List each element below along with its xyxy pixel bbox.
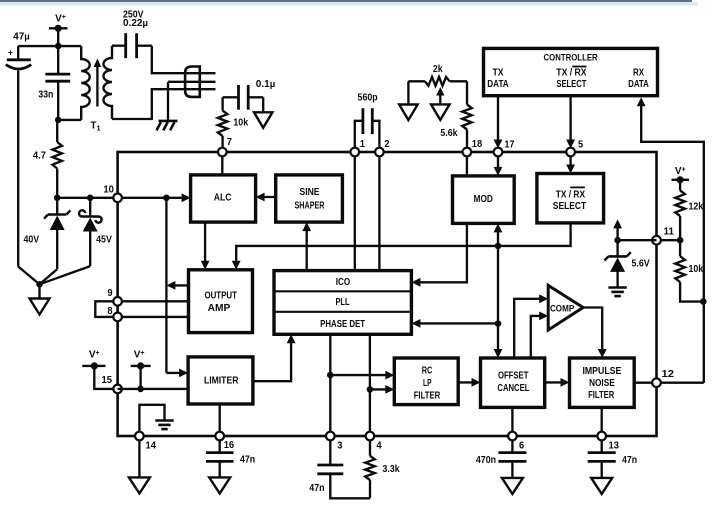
svg-text:1: 1 [360,139,366,150]
ground (0.1u) [254,112,273,128]
zener D3 5.6V [604,240,649,287]
wire modnet to OFFSET CANCEL [494,324,503,358]
node 12k/10k junction [677,237,684,244]
svg-text:AMP: AMP [208,303,231,314]
svg-text:V+: V+ [134,350,145,361]
wire SINE to ALC [256,193,276,202]
node pin10 rail dot1 [54,195,61,202]
svg-text:11: 11 [664,226,675,237]
pin 13 [597,432,619,452]
svg-text:33n: 33n [38,90,53,101]
block IMPULSE NOISE FILTER [570,358,635,407]
pin 3 [326,432,343,452]
svg-text:CANCEL: CANCEL [497,383,529,394]
block LIMITER [188,357,253,404]
ground (earth near pin14) [155,421,173,430]
svg-text:NOISE: NOISE [589,378,615,389]
block SINE SHAPER [276,175,343,222]
svg-text:+: + [8,48,13,58]
wire PHASE DET to pin3 [329,334,331,436]
capacitor C5 560p label [358,92,378,103]
pin 12 [652,369,674,387]
capacitor C7 47n [309,440,370,498]
svg-text:18: 18 [472,139,483,150]
controller RX DATA label [628,68,649,90]
AC plug middle prong wire [168,81,216,83]
svg-text:TX / RX: TX / RX [556,190,586,201]
capacitor C3 250V 0.22u labels [123,9,148,29]
capacitor C1 47u [6,46,31,266]
pin 5 [566,139,583,156]
wire node B to T1 [58,119,81,121]
wire limiter branch into LIMITER [166,369,188,378]
block OFFSET CANCEL [481,358,545,407]
IC U1 outline [118,152,657,436]
wire ALC to OUTPUT AMP [201,222,210,270]
svg-text:12k: 12k [689,201,704,212]
svg-text:5: 5 [578,139,584,150]
zener D1 40V [23,198,70,284]
wire LIMITER to PHASE DET [253,334,296,381]
svg-text:47n: 47n [240,454,255,465]
controller TX/RX SELECT label [556,67,587,90]
svg-text:3.3k: 3.3k [383,464,400,475]
svg-text:TX: TX [492,68,504,79]
transformer T1 arrow [94,59,102,107]
wire OUTPUT AMP left arrow [166,281,188,290]
capacitor C9 47n [588,440,638,478]
op-amp COMP [548,285,583,330]
node limiter-branch junction [163,195,170,202]
svg-text:FILTER: FILTER [414,391,441,402]
wire pin11 to divider [657,239,681,241]
svg-text:560p: 560p [358,92,378,103]
pot wiper arrow [436,87,444,104]
wire limiter branch vertical [165,198,167,373]
svg-text:LIMITER: LIMITER [204,376,239,387]
pin 11 [652,226,674,244]
wire RX DATA from right rail [637,97,704,383]
wire COMP out to IMPULSE [583,308,607,359]
capacitor C6 47n [206,440,255,477]
svg-text:10k: 10k [233,117,248,128]
wire T1 secondary bottom [112,89,216,119]
AC plug ground wire [167,82,169,121]
block OUTPUT AMP [189,270,253,333]
svg-text:IMPULSE: IMPULSE [582,366,621,377]
pin 5 wire into TX/RX SELECT box [566,152,575,174]
capacitor C5 560p [355,108,380,148]
wire pin10 rail [57,193,190,202]
potentiometer R3 2k [408,64,467,86]
svg-text:45V: 45V [96,234,112,245]
wire cap to plug top [152,46,216,73]
wire pin2 to ICO [378,152,380,271]
svg-text:13: 13 [609,440,620,451]
pin 7 wire into ALC [221,152,223,175]
resistor R4 5.6k [440,81,471,147]
ground (pin 14) [129,477,150,493]
svg-text:PHASE DET: PHASE DET [320,319,365,330]
svg-text:9: 9 [107,288,113,299]
svg-text:OFFSET: OFFSET [498,371,529,382]
wire node A horizontal [18,45,81,47]
wire modnet to PHASE DET [411,319,498,328]
svg-text:47n: 47n [622,455,637,466]
svg-text:T1: T1 [90,121,100,133]
capacitor C8 470n [476,440,527,478]
wire pin14 down [138,440,140,477]
capacitor C4 0.1u [223,85,264,112]
wire OFFSET to IMPULSE [545,378,570,387]
svg-text:RX: RX [633,68,644,79]
svg-text:12: 12 [662,369,675,380]
pin 6 [508,432,525,452]
svg-text:SHAPER: SHAPER [295,200,326,211]
svg-text:FILTER: FILTER [588,390,615,401]
pin 18 [463,139,483,157]
wire 47u to ground merge [18,267,39,285]
svg-text:SELECT: SELECT [556,79,586,90]
pin 10 [103,184,122,202]
wire pin12 to rail [657,382,704,384]
transformer T1 label [90,121,100,133]
svg-text:6: 6 [519,440,525,451]
svg-text:2k: 2k [433,64,443,75]
wire branch to RC filter in1 [330,371,394,380]
zener D2 45V [40,198,113,284]
block TX/RX SELECT [537,174,604,223]
ground (pin 6) [502,478,523,494]
pin 4 [366,432,382,452]
svg-text:7: 7 [227,137,233,148]
wire LIMITER to pin16 [219,404,221,436]
V+ terminal (top left) [49,14,68,47]
capacitor C2 33n [38,46,70,120]
node modnet junction2 [495,320,502,327]
pin 17 wire into MOD [494,152,503,176]
wire IMPULSE to pin13 [601,407,603,436]
svg-text:47n: 47n [309,483,324,494]
svg-text:LP: LP [423,378,432,389]
ground (pot wiper) [431,104,450,120]
svg-text:0.1μ: 0.1μ [256,79,275,90]
svg-text:470n: 470n [476,455,496,466]
block ALC [191,175,256,222]
node pin10 rail dot2 [87,195,94,202]
wire TX DATA to pin17 [494,96,503,149]
pin 18 wire into MOD [466,152,468,176]
controller title [544,53,598,64]
node zener junction [614,237,621,244]
svg-text:MOD: MOD [474,194,493,205]
controller box [484,48,658,95]
transformer T1 secondary winding [104,46,113,119]
ground (pot left) [399,105,418,121]
top browser bar [0,0,698,6]
wire pin8 to OUTPUT AMP [118,316,189,318]
block RC LP FILTER [394,358,458,405]
ground merge node [36,281,43,299]
wire pin1 to ICO [354,152,356,271]
node B junction [55,117,62,124]
pin 9 [107,288,121,306]
wire MOD to ICO [411,223,467,286]
svg-text:47μ: 47μ [13,32,30,43]
svg-text:5.6k: 5.6k [440,128,457,139]
pin 17 [494,140,515,157]
ground (pin 16) [209,477,230,493]
svg-text:17: 17 [505,140,515,151]
V+ terminal (pin15 left) [82,350,117,389]
svg-text:4.7: 4.7 [33,151,47,162]
resistor R7 3.3k [365,440,400,498]
svg-text:COMP: COMP [550,304,575,315]
wire modnet down [497,246,499,324]
arrow up at zener node [613,219,622,240]
resistor R5 12k [675,180,703,240]
pin 1 [351,139,366,157]
ground (5.6V zener) [608,288,626,297]
svg-text:4: 4 [376,440,382,451]
pin 15 [102,375,122,393]
svg-text:OUTPUT: OUTPUT [204,290,237,301]
node V+/pin15 junction [137,386,144,393]
svg-text:14: 14 [146,440,157,451]
wire pin9 to OUTPUT AMP [118,300,189,302]
svg-text:V+: V+ [675,166,686,177]
ground (pin 13) [591,478,612,494]
svg-text:16: 16 [224,440,235,451]
controller TX DATA label [487,68,508,90]
wire pin14 to earth ground [139,405,164,435]
svg-text:5.6V: 5.6V [632,259,650,270]
V+ terminal (12k) [672,166,690,184]
pin 7 [218,137,232,156]
node A junction [55,43,62,50]
wire IMPULSE to pin12 [634,382,656,384]
ground (left merge) [30,299,50,315]
resistor R2 10k [218,97,249,147]
svg-text:0.22μ: 0.22μ [123,18,148,29]
svg-text:8: 8 [107,306,113,317]
svg-text:DATA: DATA [487,79,508,90]
wire TXRX select to OUTPUT AMP [232,223,571,270]
capacitor C4 0.1u label [256,79,275,90]
wire TXRX SELECT to pin5 [566,96,575,149]
svg-text:40V: 40V [23,234,39,245]
chassis ground (plug) [157,121,178,130]
wire pin11 to zener node [618,239,657,241]
wire OFFSET to pin6 [511,407,513,436]
pin 16 [215,432,234,451]
svg-text:10k: 10k [689,264,704,275]
wire pin15 to LIMITER [118,388,189,390]
svg-text:SELECT: SELECT [553,201,586,212]
capacitor C3 250V 0.22u [112,33,152,58]
wire PLL to pin4 [369,334,371,436]
svg-text:TX / RX: TX / RX [556,68,587,79]
svg-text:SINE: SINE [300,187,320,198]
wire OFFSET to COMP in2 [531,312,548,359]
svg-text:DATA: DATA [628,79,649,90]
resistor R1 4.7 [33,120,62,198]
node rail/10k junction [700,298,707,305]
svg-text:15: 15 [102,375,113,386]
pin 14 [135,432,156,452]
block ICO/PLL/PHASE DET [274,271,411,335]
svg-text:V+: V+ [89,350,100,361]
block MOD [453,176,515,224]
pin 8 [107,306,121,321]
svg-text:3: 3 [337,440,343,451]
svg-text:ICO: ICO [336,277,351,288]
svg-text:2: 2 [384,139,390,150]
transformer T1 primary winding [81,46,90,120]
svg-text:CONTROLLER: CONTROLLER [544,53,598,64]
AC plug P1 body [185,67,200,97]
wire OFFSET to COMP in1 [514,294,548,358]
svg-text:PLL: PLL [335,297,349,308]
capacitor 47u label [13,32,30,43]
wire SINE bottom from ICO [302,222,311,271]
resistor R6 10k [675,240,703,301]
node pin4 branch [367,386,374,393]
wire branch to RC filter in2 [370,385,394,394]
svg-text:V+: V+ [55,14,66,25]
V+ terminal (limiter) [131,350,151,389]
svg-text:RC: RC [422,365,433,376]
pins 8/9 jumper [95,301,117,317]
wire modnet up into MOD [494,223,503,246]
pin 2 [375,139,390,157]
svg-text:ALC: ALC [214,192,232,203]
node modnet junction1 [495,243,502,250]
node pin3 branch [327,372,334,379]
pot left leg ground wire [407,81,409,104]
svg-text:10: 10 [103,184,114,195]
wire RC to OFFSET [458,378,480,387]
